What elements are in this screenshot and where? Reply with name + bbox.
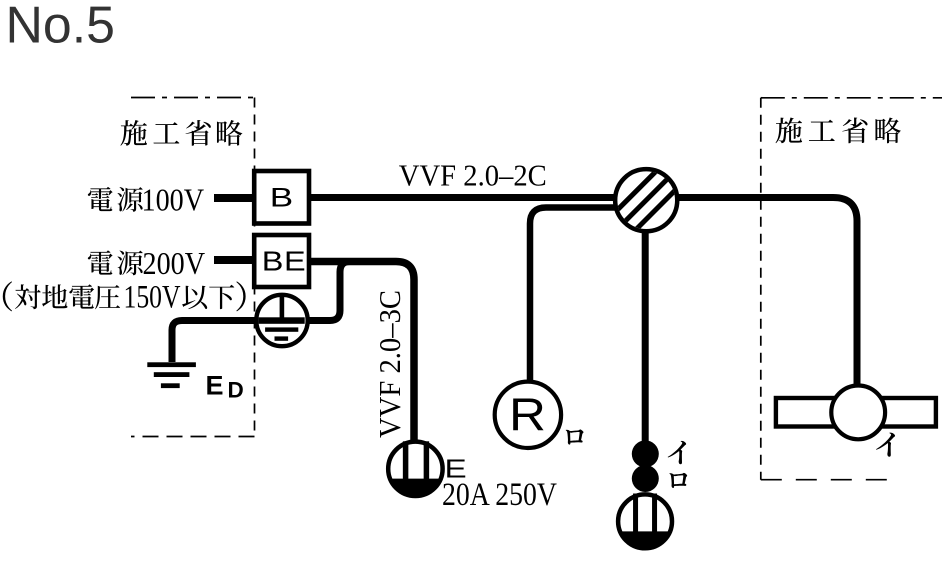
right omitted-construction dashed box <box>761 98 942 480</box>
label 電源200V <box>88 245 205 281</box>
earth terminal (circle with earth mark) <box>256 295 307 346</box>
switch ロ <box>632 465 659 492</box>
wire: joint box down to switches <box>642 232 649 442</box>
joint box (hatched circle) <box>613 167 679 233</box>
svg-text:BE: BE <box>262 247 306 277</box>
label イ (switch) <box>668 441 686 464</box>
svg-text:No.5: No.5 <box>6 0 116 55</box>
left omitted-construction dashed box <box>131 98 255 437</box>
svg-text:100V: 100V <box>142 182 205 218</box>
receptacle 20A 250V E (circle, two bars, filled bottom) <box>388 441 442 496</box>
breaker BE box <box>254 235 309 287</box>
label 施工省略 (right) <box>776 117 901 143</box>
wire: 200V source stub <box>214 256 258 264</box>
switch イ <box>632 440 659 467</box>
svg-text:VVF 2.0–2C: VVF 2.0–2C <box>399 158 547 193</box>
label (対地電圧150V以下) <box>3 280 246 316</box>
wire: VVF 2.0-2C main run from breaker B to joint box and lamp <box>309 198 857 386</box>
label 電源100V <box>88 182 204 218</box>
wire: joint box to room air conditioner R <box>530 208 618 381</box>
svg-text:R: R <box>509 390 546 441</box>
svg-text:20A 250V: 20A 250V <box>442 477 557 513</box>
ground symbol ED <box>147 362 196 388</box>
svg-text:D: D <box>228 378 244 403</box>
label ED <box>206 371 244 403</box>
room air conditioner R <box>495 382 561 448</box>
svg-text:B: B <box>270 182 293 212</box>
wire: grounding conductor from earth terminal joining BE run <box>172 262 356 363</box>
svg-text:150V: 150V <box>124 280 181 316</box>
lamp receptacle (circle, two bars, filled bottom) <box>618 494 672 549</box>
breaker B box <box>254 171 309 224</box>
svg-text:E: E <box>206 371 224 401</box>
wire: 100V source stub <box>214 194 258 202</box>
svg-text:200V: 200V <box>143 245 206 281</box>
svg-text:VVF 2.0–3C: VVF 2.0–3C <box>372 290 407 438</box>
wire: BE output down to 20A receptacle <box>309 262 414 443</box>
label ロ (air conditioner) <box>566 429 584 444</box>
label ロ (switch) <box>669 473 687 488</box>
label イ (fluorescent) <box>876 433 895 457</box>
label 施工省略 (left) <box>120 120 242 146</box>
fluorescent lamp イ <box>776 386 936 440</box>
